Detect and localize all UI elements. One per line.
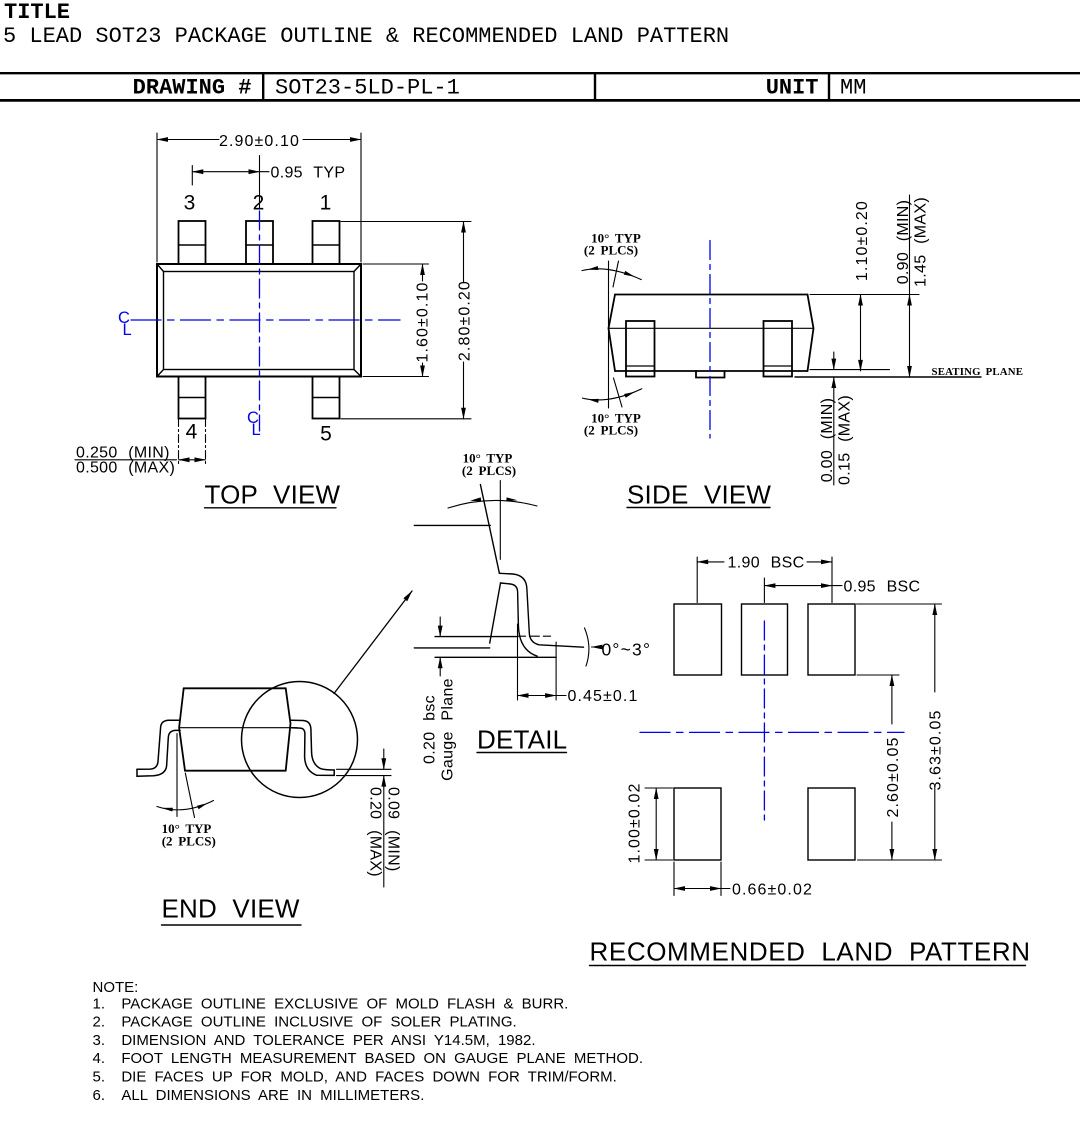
- svg-text:0.09 (MIN): 0.09 (MIN): [385, 787, 402, 872]
- svg-text:2. PACKAGE OUTLINE INCLUSIVE: 2. PACKAGE OUTLINE INCLUSIVE OF SOLER PL…: [93, 1014, 517, 1031]
- svg-text:(2 PLCS): (2 PLCS): [162, 834, 216, 849]
- svg-text:DETAIL: DETAIL: [477, 725, 567, 755]
- svg-text:TOP VIEW: TOP VIEW: [205, 480, 341, 510]
- svg-text:2.80±0.20: 2.80±0.20: [456, 280, 473, 361]
- svg-text:1.00±0.02: 1.00±0.02: [627, 783, 644, 864]
- svg-text:4. FOOT LENGTH MEASUREMENT BA: 4. FOOT LENGTH MEASUREMENT BASED ON GAUG…: [93, 1050, 644, 1067]
- svg-text:(2 PLCS): (2 PLCS): [462, 463, 516, 478]
- svg-text:UNIT: UNIT: [766, 76, 819, 101]
- svg-text:0.95 BSC: 0.95 BSC: [844, 578, 921, 595]
- svg-text:(2 PLCS): (2 PLCS): [584, 423, 638, 438]
- svg-text:1.45 (MAX): 1.45 (MAX): [913, 197, 930, 287]
- svg-text:SOT23-5LD-PL-1: SOT23-5LD-PL-1: [275, 76, 460, 101]
- svg-text:3. DIMENSION AND TOLERANCE PE: 3. DIMENSION AND TOLERANCE PER ANSI Y14.…: [93, 1032, 536, 1049]
- svg-text:2: 2: [253, 192, 265, 215]
- svg-text:2.60±0.05: 2.60±0.05: [885, 737, 902, 818]
- svg-text:(2 PLCS): (2 PLCS): [584, 243, 638, 258]
- svg-text:4: 4: [186, 421, 198, 444]
- svg-text:MM: MM: [840, 76, 866, 101]
- svg-text:0.20 (MAX): 0.20 (MAX): [366, 787, 383, 877]
- svg-text:TITLE: TITLE: [4, 0, 70, 25]
- svg-text:L: L: [123, 321, 132, 339]
- svg-text:1.60±0.10: 1.60±0.10: [414, 282, 431, 363]
- svg-text:0.45±0.1: 0.45±0.1: [568, 688, 639, 705]
- svg-text:END VIEW: END VIEW: [162, 894, 300, 924]
- svg-text:0.95 TYP: 0.95 TYP: [271, 165, 346, 182]
- svg-text:DRAWING #: DRAWING #: [133, 76, 252, 101]
- svg-text:5: 5: [320, 423, 332, 446]
- svg-text:0.500 (MAX): 0.500 (MAX): [76, 460, 175, 477]
- svg-text:5. DIE FACES UP FOR MOLD, AND: 5. DIE FACES UP FOR MOLD, AND FACES DOWN…: [93, 1069, 617, 1086]
- svg-text:SIDE VIEW: SIDE VIEW: [627, 480, 771, 510]
- svg-text:0.20 bsc: 0.20 bsc: [422, 695, 439, 764]
- svg-text:L: L: [252, 421, 261, 439]
- svg-text:6. ALL DIMENSIONS ARE IN MILL: 6. ALL DIMENSIONS ARE IN MILLIMETERS.: [93, 1087, 425, 1104]
- svg-text:NOTE:: NOTE:: [93, 979, 139, 996]
- svg-text:1. PACKAGE OUTLINE EXCLUSIVE: 1. PACKAGE OUTLINE EXCLUSIVE OF MOLD FLA…: [93, 995, 569, 1012]
- svg-text:2.90±0.10: 2.90±0.10: [219, 133, 300, 150]
- svg-text:0.90 (MIN): 0.90 (MIN): [895, 200, 912, 285]
- svg-text:1: 1: [320, 192, 332, 215]
- svg-text:3: 3: [184, 192, 196, 215]
- svg-text:5 LEAD SOT23 PACKAGE OUTLINE &: 5 LEAD SOT23 PACKAGE OUTLINE & RECOMMEND…: [3, 24, 729, 49]
- svg-text:1.10±0.20: 1.10±0.20: [854, 200, 871, 281]
- svg-text:SEATING PLANE: SEATING PLANE: [932, 366, 1024, 378]
- svg-text:0°~3°: 0°~3°: [602, 640, 652, 660]
- svg-text:RECOMMENDED LAND PATTERN: RECOMMENDED LAND PATTERN: [590, 937, 1031, 967]
- svg-text:0.15 (MAX): 0.15 (MAX): [837, 395, 854, 485]
- svg-text:0.66±0.02: 0.66±0.02: [732, 881, 813, 898]
- svg-text:1.90 BSC: 1.90 BSC: [728, 555, 805, 572]
- svg-text:3.63±0.05: 3.63±0.05: [928, 710, 945, 791]
- svg-text:0.00 (MIN): 0.00 (MIN): [819, 398, 836, 483]
- svg-text:Gauge Plane: Gauge Plane: [440, 678, 457, 781]
